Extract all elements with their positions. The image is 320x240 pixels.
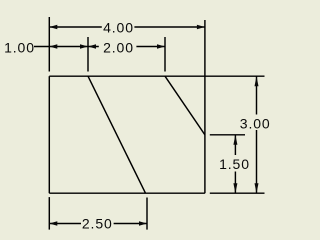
arrow 1.00 left [49, 44, 57, 48]
arrow 1.50 bottom [233, 183, 237, 193]
arrow 4.00 left [49, 25, 57, 29]
left extension line bottom [48, 197, 50, 230]
dimension 1.50 line [234, 135, 236, 155]
step extension line [210, 134, 245, 136]
diagonal line 1 [88, 76, 146, 193]
arrow 1.50 top [233, 135, 237, 145]
bottom edge [49, 192, 205, 194]
bottom extension line right [210, 192, 265, 194]
svg-text:1.00: 1.00 [4, 39, 35, 55]
arrow 3.00 bottom [255, 183, 259, 193]
arrow 3.00 top [255, 76, 259, 86]
extension line x=165 [164, 37, 166, 72]
arrow 1.00 right [80, 44, 88, 48]
extension line x=88 [87, 37, 89, 72]
dimension 3.00 line [256, 76, 258, 114]
arrow 4.00 right [197, 25, 205, 29]
right edge with top extension [204, 20, 206, 193]
arrow 2.50 right [139, 221, 147, 225]
left extension line top [48, 17, 50, 72]
svg-text:4.00: 4.00 [103, 19, 134, 35]
svg-text:1.50: 1.50 [219, 156, 250, 172]
svg-text:3.00: 3.00 [240, 115, 271, 131]
arrow 2.00 left [88, 44, 96, 48]
diagonal line 2 [165, 76, 205, 135]
arrow 2.50 left [49, 221, 57, 225]
top edge with right extension [49, 75, 264, 77]
dimension 4.00 line [49, 26, 102, 28]
svg-text:2.50: 2.50 [82, 216, 113, 232]
extension line x=147 [146, 198, 148, 230]
left edge [48, 76, 50, 193]
dimension 2.50 line [49, 223, 81, 225]
arrow 2.00 right [157, 44, 165, 48]
dimension 1.00/2.00 line [34, 46, 99, 48]
svg-text:2.00: 2.00 [103, 39, 134, 55]
